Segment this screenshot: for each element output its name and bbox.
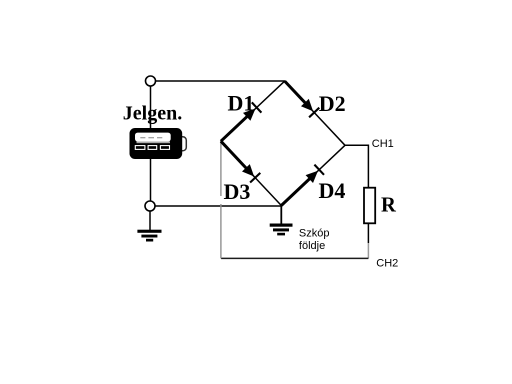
svg-text:D4: D4 xyxy=(319,178,346,203)
svg-text:CH2: CH2 xyxy=(376,258,398,270)
svg-text:CH1: CH1 xyxy=(372,138,394,150)
svg-text:Szkóp: Szkóp xyxy=(299,227,330,239)
svg-text:D1: D1 xyxy=(228,90,255,115)
svg-text:D3: D3 xyxy=(224,179,251,204)
svg-text:földje: földje xyxy=(299,240,325,252)
svg-text:D2: D2 xyxy=(319,91,346,116)
svg-text:Jelgen.: Jelgen. xyxy=(123,103,182,125)
svg-text:R: R xyxy=(381,195,397,217)
